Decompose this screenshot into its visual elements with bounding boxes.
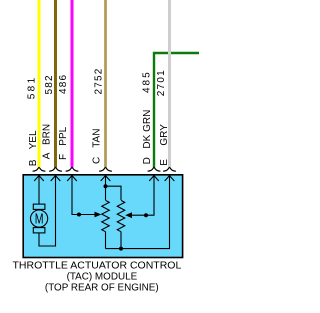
svg-text:GRY: GRY bbox=[159, 124, 170, 146]
svg-text:F: F bbox=[58, 154, 69, 160]
svg-text:581: 581 bbox=[27, 75, 38, 99]
svg-text:A: A bbox=[41, 152, 52, 159]
svg-text:B: B bbox=[28, 159, 39, 166]
svg-text:TAN: TAN bbox=[91, 129, 102, 148]
svg-text:E: E bbox=[159, 159, 170, 166]
svg-text:DK GRN: DK GRN bbox=[142, 110, 153, 149]
svg-text:(TAC) MODULE: (TAC) MODULE bbox=[67, 271, 138, 282]
svg-text:582: 582 bbox=[44, 74, 55, 94]
svg-text:D: D bbox=[142, 157, 153, 164]
svg-text:(TOP REAR OF ENGINE): (TOP REAR OF ENGINE) bbox=[45, 283, 159, 294]
svg-text:486: 486 bbox=[58, 74, 69, 94]
svg-text:2701: 2701 bbox=[156, 69, 167, 96]
svg-text:YEL: YEL bbox=[28, 130, 39, 149]
svg-text:C: C bbox=[91, 157, 102, 164]
svg-text:THROTTLE ACTUATOR CONTROL: THROTTLE ACTUATOR CONTROL bbox=[13, 260, 182, 272]
svg-text:BRN: BRN bbox=[41, 124, 52, 145]
svg-text:PPL: PPL bbox=[58, 126, 69, 145]
svg-text:485: 485 bbox=[142, 70, 153, 93]
svg-text:M: M bbox=[35, 212, 44, 228]
svg-text:2752: 2752 bbox=[94, 67, 105, 94]
